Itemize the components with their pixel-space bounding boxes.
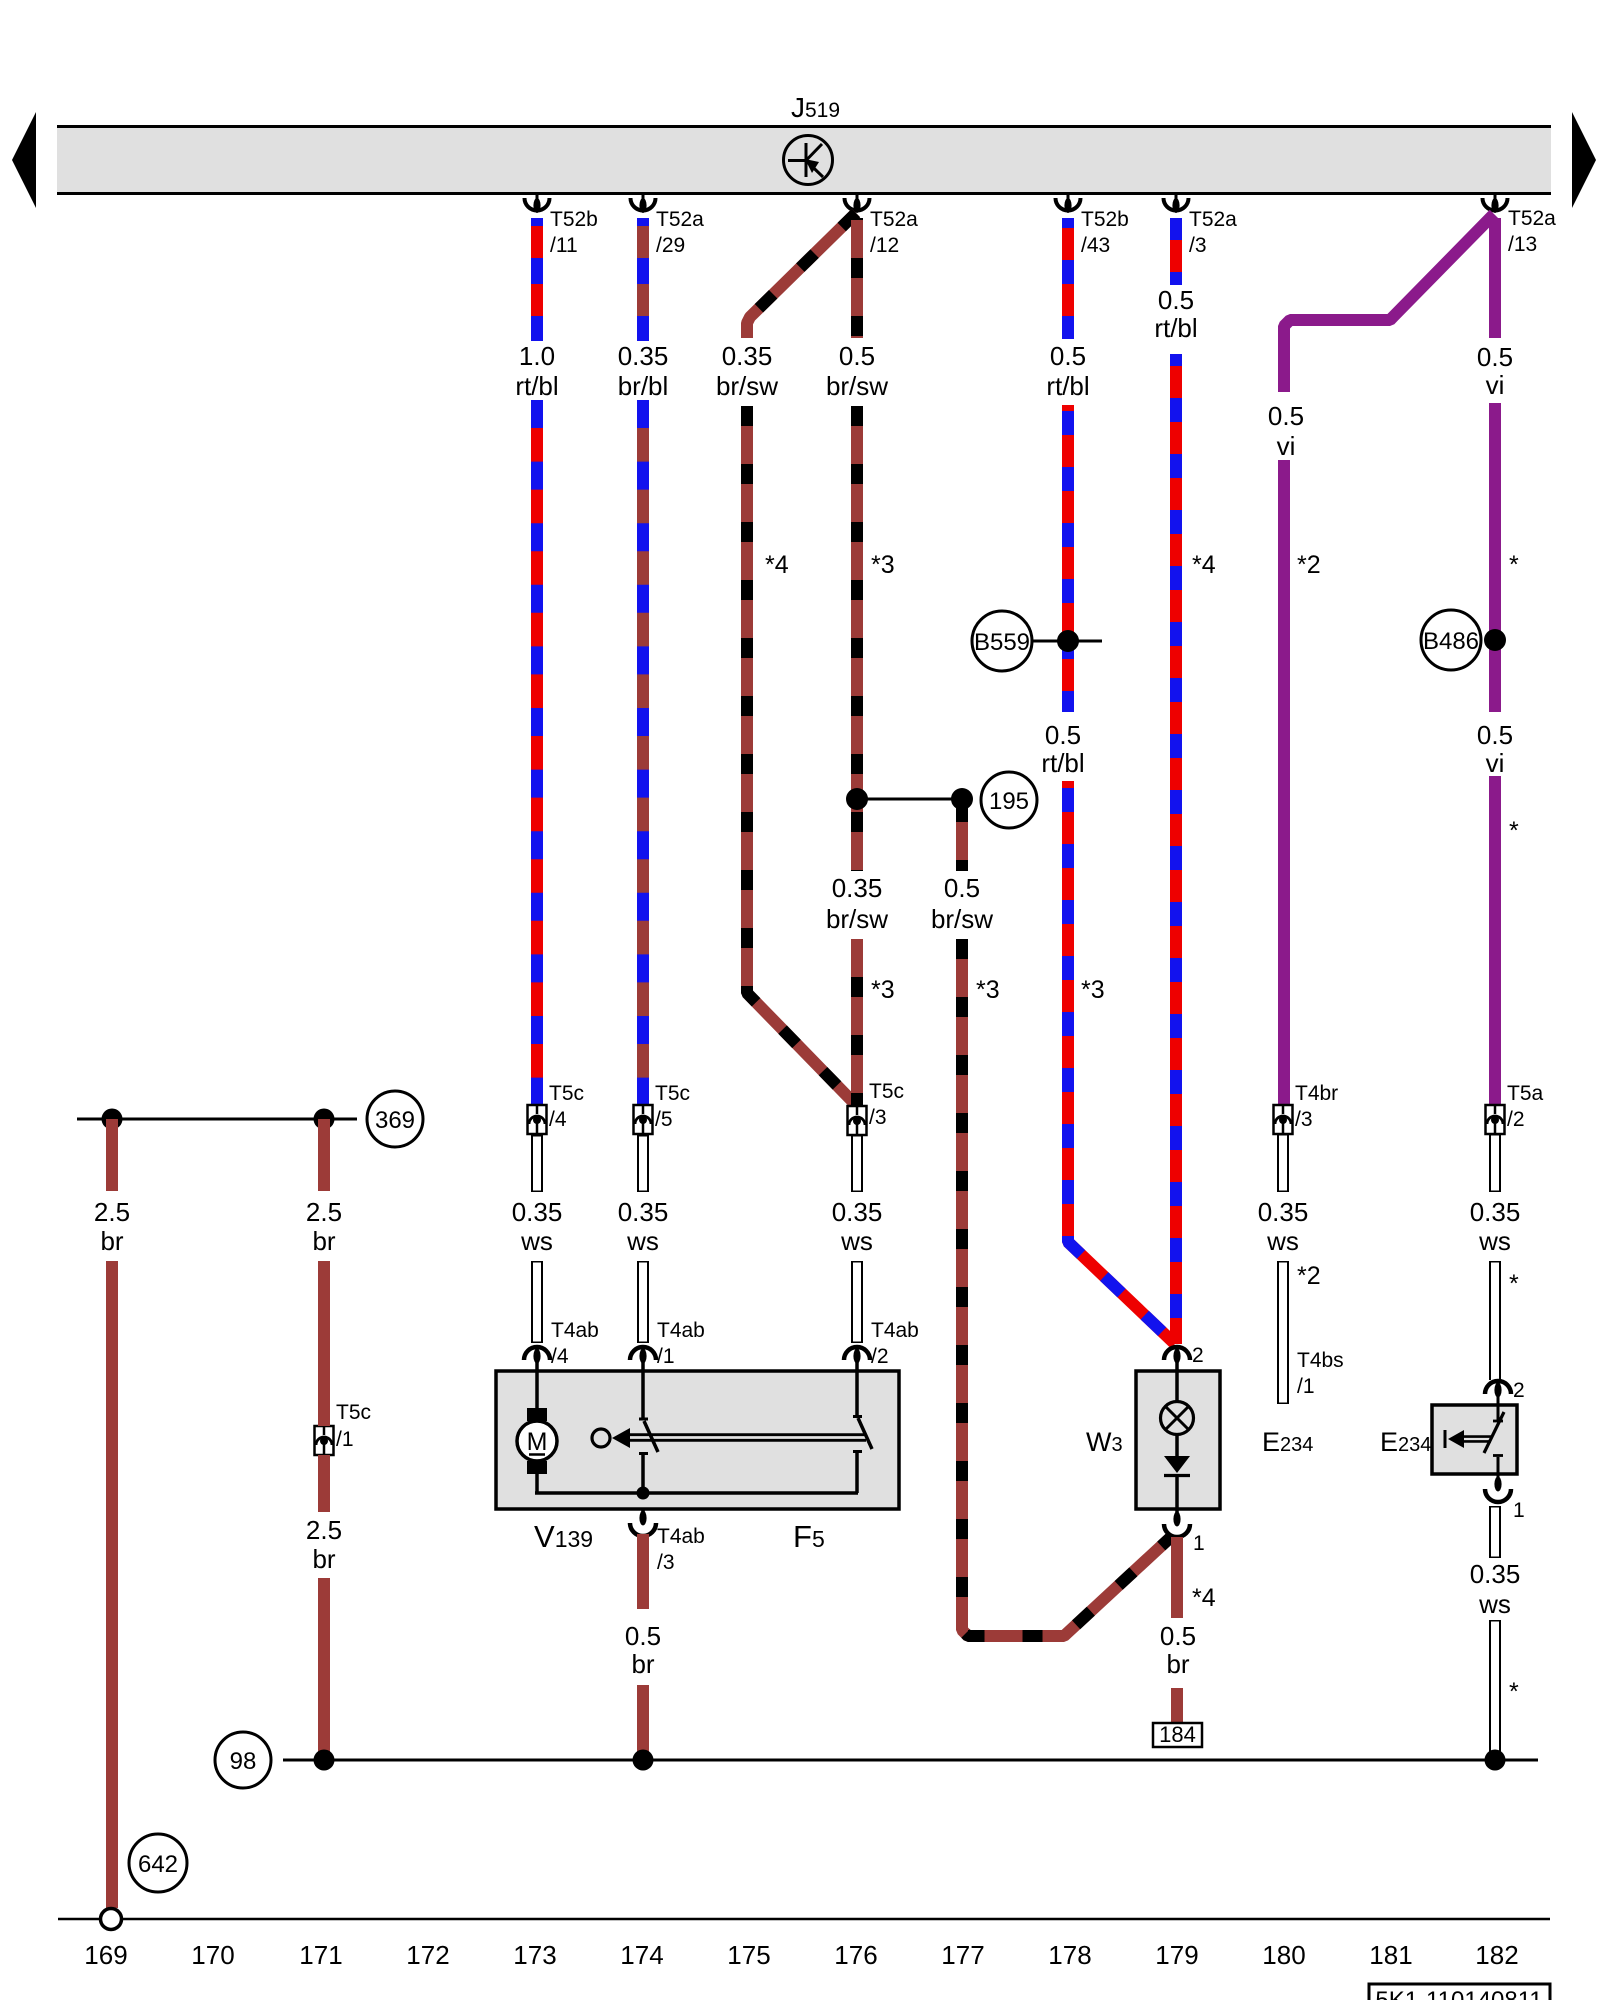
- wire 0.35 ws below T5c/3: [851, 1135, 863, 1343]
- svg-text:2: 2: [1513, 1379, 1525, 1402]
- svg-text:/29: /29: [656, 234, 685, 257]
- svg-text:/3: /3: [1295, 1108, 1313, 1131]
- junction dot ground 182: [1485, 1750, 1506, 1771]
- svg-text:/43: /43: [1081, 234, 1110, 257]
- svg-text:0.35: 0.35: [1258, 1197, 1309, 1227]
- svg-text:vi: vi: [1486, 748, 1505, 778]
- svg-text:0.5: 0.5: [625, 1621, 661, 1651]
- node 642 label circle: [129, 1834, 187, 1892]
- connector T52b pin 43: [1056, 195, 1129, 257]
- node 369 label circle: [367, 1091, 423, 1147]
- svg-text:2: 2: [1192, 1344, 1204, 1367]
- svg-text:169: 169: [84, 1940, 127, 1970]
- svg-text:br/sw: br/sw: [931, 904, 993, 934]
- svg-text:*: *: [1509, 1270, 1519, 1298]
- motor V139 symbol: [517, 1372, 557, 1494]
- svg-text:642: 642: [138, 1851, 178, 1878]
- svg-text:0.5: 0.5: [944, 873, 980, 903]
- svg-text:M: M: [527, 1428, 548, 1456]
- wire 0.35 ws below T5c/4: [531, 1135, 543, 1343]
- svg-text:/2: /2: [1507, 1108, 1525, 1131]
- svg-text:br: br: [100, 1226, 123, 1256]
- component box W3: [1136, 1371, 1220, 1509]
- svg-text:vi: vi: [1277, 431, 1296, 461]
- junction dot 195 left: [846, 788, 868, 810]
- svg-text:176: 176: [834, 1940, 877, 1970]
- control unit J519 bus bar: [57, 127, 1551, 194]
- drawing number box 5K1-110140811: [1369, 1984, 1550, 2000]
- svg-text:177: 177: [941, 1940, 984, 1970]
- svg-text:/3: /3: [657, 1551, 675, 1574]
- svg-text:1: 1: [1193, 1532, 1205, 1555]
- svg-text:1.0: 1.0: [519, 341, 555, 371]
- wire 0.35 ws below T5a/2 to E234 pin 2: [1489, 1134, 1501, 1380]
- junction dot on wire 171 column: [314, 1109, 335, 1130]
- svg-text:T52a: T52a: [870, 208, 918, 231]
- svg-text:/1: /1: [336, 1428, 354, 1451]
- connector T4ab pin 4: [524, 1319, 599, 1372]
- switch F5 mechanical linkage with arrow: [592, 1428, 866, 1448]
- svg-text:ws: ws: [840, 1226, 873, 1256]
- terminal 184 box: [1153, 1722, 1202, 1747]
- svg-text:br/bl: br/bl: [618, 371, 669, 401]
- svg-text:*: *: [1509, 551, 1519, 579]
- connector T5a pin 2: [1486, 1082, 1544, 1134]
- svg-text:178: 178: [1048, 1940, 1091, 1970]
- svg-text:0.5: 0.5: [839, 341, 875, 371]
- svg-text:B486: B486: [1423, 628, 1479, 655]
- connector T52a pin 12: [845, 195, 919, 257]
- wire 0.5 br/sw long run to W3 pin 1: [962, 939, 1171, 1636]
- svg-text:T5c: T5c: [869, 1080, 904, 1103]
- svg-text:173: 173: [513, 1940, 556, 1970]
- svg-text:T52a: T52a: [1508, 207, 1556, 230]
- bottom rail line: [58, 1918, 1550, 1921]
- svg-text:*3: *3: [1081, 976, 1105, 1004]
- svg-text:*3: *3: [976, 976, 1000, 1004]
- wire 0.35 ws below T5c/5: [637, 1135, 649, 1343]
- wire 0.35 br/sw diagonal from T52a/12: [747, 213, 856, 338]
- bus continuation arrow left: [12, 112, 36, 208]
- svg-text:ws: ws: [626, 1226, 659, 1256]
- svg-text:98: 98: [230, 1748, 257, 1775]
- svg-text:1: 1: [1513, 1499, 1525, 1522]
- component box V139 / F5: [496, 1371, 899, 1509]
- W3 pin 1 connector: [1164, 1509, 1205, 1555]
- junction dot on wire 169 column: [102, 1109, 123, 1130]
- wire 2.5 br column 169 long run: [106, 1261, 118, 1908]
- svg-text:0.5: 0.5: [1477, 720, 1513, 750]
- svg-text:ws: ws: [1478, 1226, 1511, 1256]
- junction dot 195 right: [951, 788, 973, 810]
- svg-text:0.35: 0.35: [832, 873, 883, 903]
- connector T52a pin 29: [631, 195, 705, 257]
- svg-text:2.5: 2.5: [306, 1515, 342, 1545]
- wire 0.5 vi from T52a/13 to corner: [1284, 214, 1494, 392]
- connector T4ab pin 2: [844, 1319, 919, 1372]
- svg-text:0.5: 0.5: [1160, 1621, 1196, 1651]
- wire 0.35 br/sw below node 195 to T5c/3: [851, 939, 863, 1105]
- wire 0.35 br/bl lower to T5c/5: [637, 400, 649, 1105]
- svg-text:T52a: T52a: [656, 208, 704, 231]
- svg-text:/3: /3: [1189, 234, 1207, 257]
- svg-text:182: 182: [1475, 1940, 1518, 1970]
- svg-text:*2: *2: [1297, 551, 1321, 579]
- svg-text:/13: /13: [1508, 233, 1537, 256]
- svg-text:175: 175: [727, 1940, 770, 1970]
- connector T5c pin 3: [848, 1080, 905, 1135]
- node 195 link wire: [857, 798, 962, 801]
- svg-text:0.5: 0.5: [1050, 341, 1086, 371]
- svg-text:T4br: T4br: [1295, 1082, 1338, 1105]
- svg-text:ws: ws: [1266, 1226, 1299, 1256]
- E234 pin 2 connector: [1485, 1379, 1525, 1406]
- svg-text:0.5: 0.5: [1045, 720, 1081, 750]
- svg-text:/5: /5: [655, 1108, 673, 1131]
- switch F5 left contact set: [639, 1372, 658, 1493]
- svg-text:*4: *4: [1192, 551, 1216, 579]
- svg-text:195: 195: [989, 788, 1029, 815]
- node B559 link wire: [1032, 640, 1102, 643]
- svg-text:/2: /2: [871, 1345, 889, 1368]
- svg-text:181: 181: [1369, 1940, 1412, 1970]
- switch F5 right contact set: [853, 1372, 872, 1493]
- wire 0.5 rt/bl lower diagonal to W3 pin 2: [1068, 781, 1175, 1344]
- wire 2.5 br column 171 to ground 98: [318, 1578, 330, 1760]
- svg-text:T52a: T52a: [1189, 208, 1237, 231]
- svg-text:171: 171: [299, 1940, 342, 1970]
- wire 0.35 ws below T4br/3 to T4bs/1: [1277, 1134, 1289, 1404]
- wire 2.5 br column 171 below T5c/1: [318, 1455, 330, 1512]
- wire 2.5 br column 169 upper: [106, 1119, 118, 1191]
- svg-text:B559: B559: [974, 629, 1030, 656]
- node 369 link wire: [77, 1118, 357, 1121]
- svg-text:*4: *4: [765, 551, 789, 579]
- svg-text:T4ab: T4ab: [551, 1319, 599, 1342]
- svg-text:/1: /1: [1297, 1375, 1315, 1398]
- wire 0.5 vi left run to T4br/3: [1278, 460, 1290, 1105]
- svg-text:*4: *4: [1192, 1584, 1216, 1612]
- svg-text:br/sw: br/sw: [716, 371, 778, 401]
- wire 0.5 br/sw middle to node 195: [851, 406, 863, 871]
- svg-text:T4ab: T4ab: [657, 1525, 705, 1548]
- svg-text:rt/bl: rt/bl: [515, 371, 558, 401]
- svg-text:0.35: 0.35: [618, 1197, 669, 1227]
- svg-text:T4bs: T4bs: [1297, 1349, 1344, 1372]
- push switch symbol in E234: [1484, 1406, 1504, 1474]
- wire 2.5 br column 171 to T5c/1: [318, 1261, 330, 1426]
- svg-text:0.35: 0.35: [512, 1197, 563, 1227]
- svg-text:T4ab: T4ab: [657, 1319, 705, 1342]
- svg-text:369: 369: [375, 1107, 415, 1134]
- actuation arrow in E234: [1445, 1430, 1491, 1448]
- junction dot ground 171: [314, 1750, 335, 1771]
- svg-text:184: 184: [1159, 1722, 1196, 1747]
- svg-text:T5c: T5c: [549, 1082, 584, 1105]
- connector T52a pin 3: [1164, 195, 1238, 257]
- svg-text:5K1-110140811: 5K1-110140811: [1375, 1987, 1542, 2000]
- E234 pin 1 connector: [1485, 1474, 1525, 1522]
- svg-text:/11: /11: [550, 234, 578, 257]
- svg-text:0.35: 0.35: [832, 1197, 883, 1227]
- svg-text:179: 179: [1155, 1940, 1198, 1970]
- node 98 label circle: [215, 1732, 271, 1788]
- switch F5 internal link wire: [535, 1491, 858, 1495]
- svg-text:/1: /1: [657, 1345, 675, 1368]
- connector T4br pin 3: [1274, 1082, 1339, 1134]
- svg-text:0.35: 0.35: [618, 341, 669, 371]
- svg-text:br: br: [312, 1544, 335, 1574]
- ground terminal open circle: [101, 1909, 122, 1930]
- svg-text:2.5: 2.5: [94, 1197, 130, 1227]
- junction dot ground 174: [633, 1750, 654, 1771]
- diode symbol in W3: [1164, 1456, 1190, 1510]
- svg-text:*3: *3: [871, 551, 895, 579]
- lamp symbol W3: [1161, 1372, 1194, 1457]
- svg-text:/3: /3: [869, 1106, 887, 1129]
- node B486 label circle: [1421, 610, 1481, 670]
- wire 0.35 br/sw lower diagonal to T5c/3: [747, 406, 855, 1104]
- connector T5c pin 5: [634, 1082, 691, 1134]
- wire 2.5 br column 171 upper: [318, 1119, 330, 1191]
- svg-text:rt/bl: rt/bl: [1041, 748, 1084, 778]
- connector T5c pin 1: [315, 1401, 372, 1455]
- wire 0.5 rt/bl from T52b/43 upper: [1062, 218, 1074, 339]
- wire 0.5 vi right middle through B486: [1489, 403, 1501, 712]
- svg-text:*2: *2: [1297, 1262, 1321, 1290]
- connector T52a pin 13: [1483, 195, 1557, 256]
- svg-text:/4: /4: [549, 1108, 567, 1131]
- svg-text:rt/bl: rt/bl: [1154, 313, 1197, 343]
- node 195 label circle: [981, 772, 1037, 828]
- wire 0.5 br below W3 pin 1: [1171, 1537, 1183, 1618]
- wire 0.5 br/sw from T52a/12 upper: [851, 218, 863, 338]
- svg-text:ws: ws: [520, 1226, 553, 1256]
- junction dot B559: [1057, 630, 1079, 652]
- wire 0.5 rt/bl middle run to B559: [1062, 405, 1074, 712]
- svg-text:0.5: 0.5: [1268, 401, 1304, 431]
- junction dot in F5: [637, 1487, 650, 1500]
- connector T4ab pin 3: [630, 1509, 705, 1574]
- connector T52b pin 11: [525, 195, 598, 257]
- svg-text:/4: /4: [551, 1345, 569, 1368]
- svg-text:0.35: 0.35: [722, 341, 773, 371]
- svg-text:2.5: 2.5: [306, 1197, 342, 1227]
- svg-text:ws: ws: [1478, 1589, 1511, 1619]
- wire 1.0 rt/bl lower to T5c/4: [531, 400, 543, 1105]
- svg-text:T5a: T5a: [1507, 1082, 1544, 1105]
- component box E234: [1432, 1405, 1517, 1474]
- svg-text:170: 170: [191, 1940, 234, 1970]
- wire 0.5 br to ground node 98: [637, 1685, 649, 1760]
- wire 0.35 br/bl from T52a/29 upper: [637, 218, 649, 341]
- svg-text:/12: /12: [870, 234, 899, 257]
- svg-text:br/sw: br/sw: [826, 904, 888, 934]
- wire 0.5 br into terminal 184: [1171, 1688, 1183, 1723]
- svg-text:br: br: [631, 1649, 654, 1679]
- svg-text:0.5: 0.5: [1477, 342, 1513, 372]
- svg-text:*: *: [1509, 1678, 1519, 1706]
- svg-text:T52b: T52b: [1081, 208, 1129, 231]
- svg-text:T5c: T5c: [655, 1082, 690, 1105]
- wire 0.5 br/sw from node 195 upper: [956, 808, 968, 871]
- W3 pin 2 connector: [1164, 1344, 1204, 1372]
- wire 0.35 ws below E234 pin 1 to ground: [1489, 1506, 1501, 1760]
- bus continuation arrow right: [1572, 112, 1596, 208]
- connector T4ab pin 1: [630, 1319, 705, 1372]
- wire 0.5 vi right upper: [1489, 218, 1501, 338]
- comfort system symbol in J519: [784, 136, 833, 185]
- svg-text:vi: vi: [1486, 370, 1505, 400]
- wire 0.5 rt/bl long run to W3 pin 2: [1170, 354, 1182, 1344]
- svg-text:br: br: [1166, 1649, 1189, 1679]
- svg-text:br/sw: br/sw: [826, 371, 888, 401]
- wire 1.0 rt/bl from T52b/11 upper: [531, 218, 543, 341]
- junction dot B486: [1484, 629, 1506, 651]
- svg-text:T52b: T52b: [550, 208, 598, 231]
- connector T5c pin 4: [528, 1082, 585, 1134]
- ground node 98 wire: [283, 1759, 1538, 1762]
- wire 0.5 vi right lower to T5a/2: [1489, 776, 1501, 1105]
- svg-text:172: 172: [406, 1940, 449, 1970]
- svg-text:0.5: 0.5: [1158, 285, 1194, 315]
- svg-text:*: *: [1509, 817, 1519, 845]
- svg-text:*3: *3: [871, 976, 895, 1004]
- svg-text:174: 174: [620, 1940, 663, 1970]
- svg-text:br: br: [312, 1226, 335, 1256]
- svg-text:0.35: 0.35: [1470, 1559, 1521, 1589]
- svg-text:rt/bl: rt/bl: [1046, 371, 1089, 401]
- node B559 label circle: [972, 611, 1032, 671]
- wire 0.5 br below T4ab/3: [637, 1534, 649, 1609]
- svg-text:0.35: 0.35: [1470, 1197, 1521, 1227]
- svg-text:T5c: T5c: [336, 1401, 371, 1424]
- wire 0.5 rt/bl from T52a/3 upper: [1170, 218, 1182, 285]
- svg-text:T4ab: T4ab: [871, 1319, 919, 1342]
- svg-text:180: 180: [1262, 1940, 1305, 1970]
